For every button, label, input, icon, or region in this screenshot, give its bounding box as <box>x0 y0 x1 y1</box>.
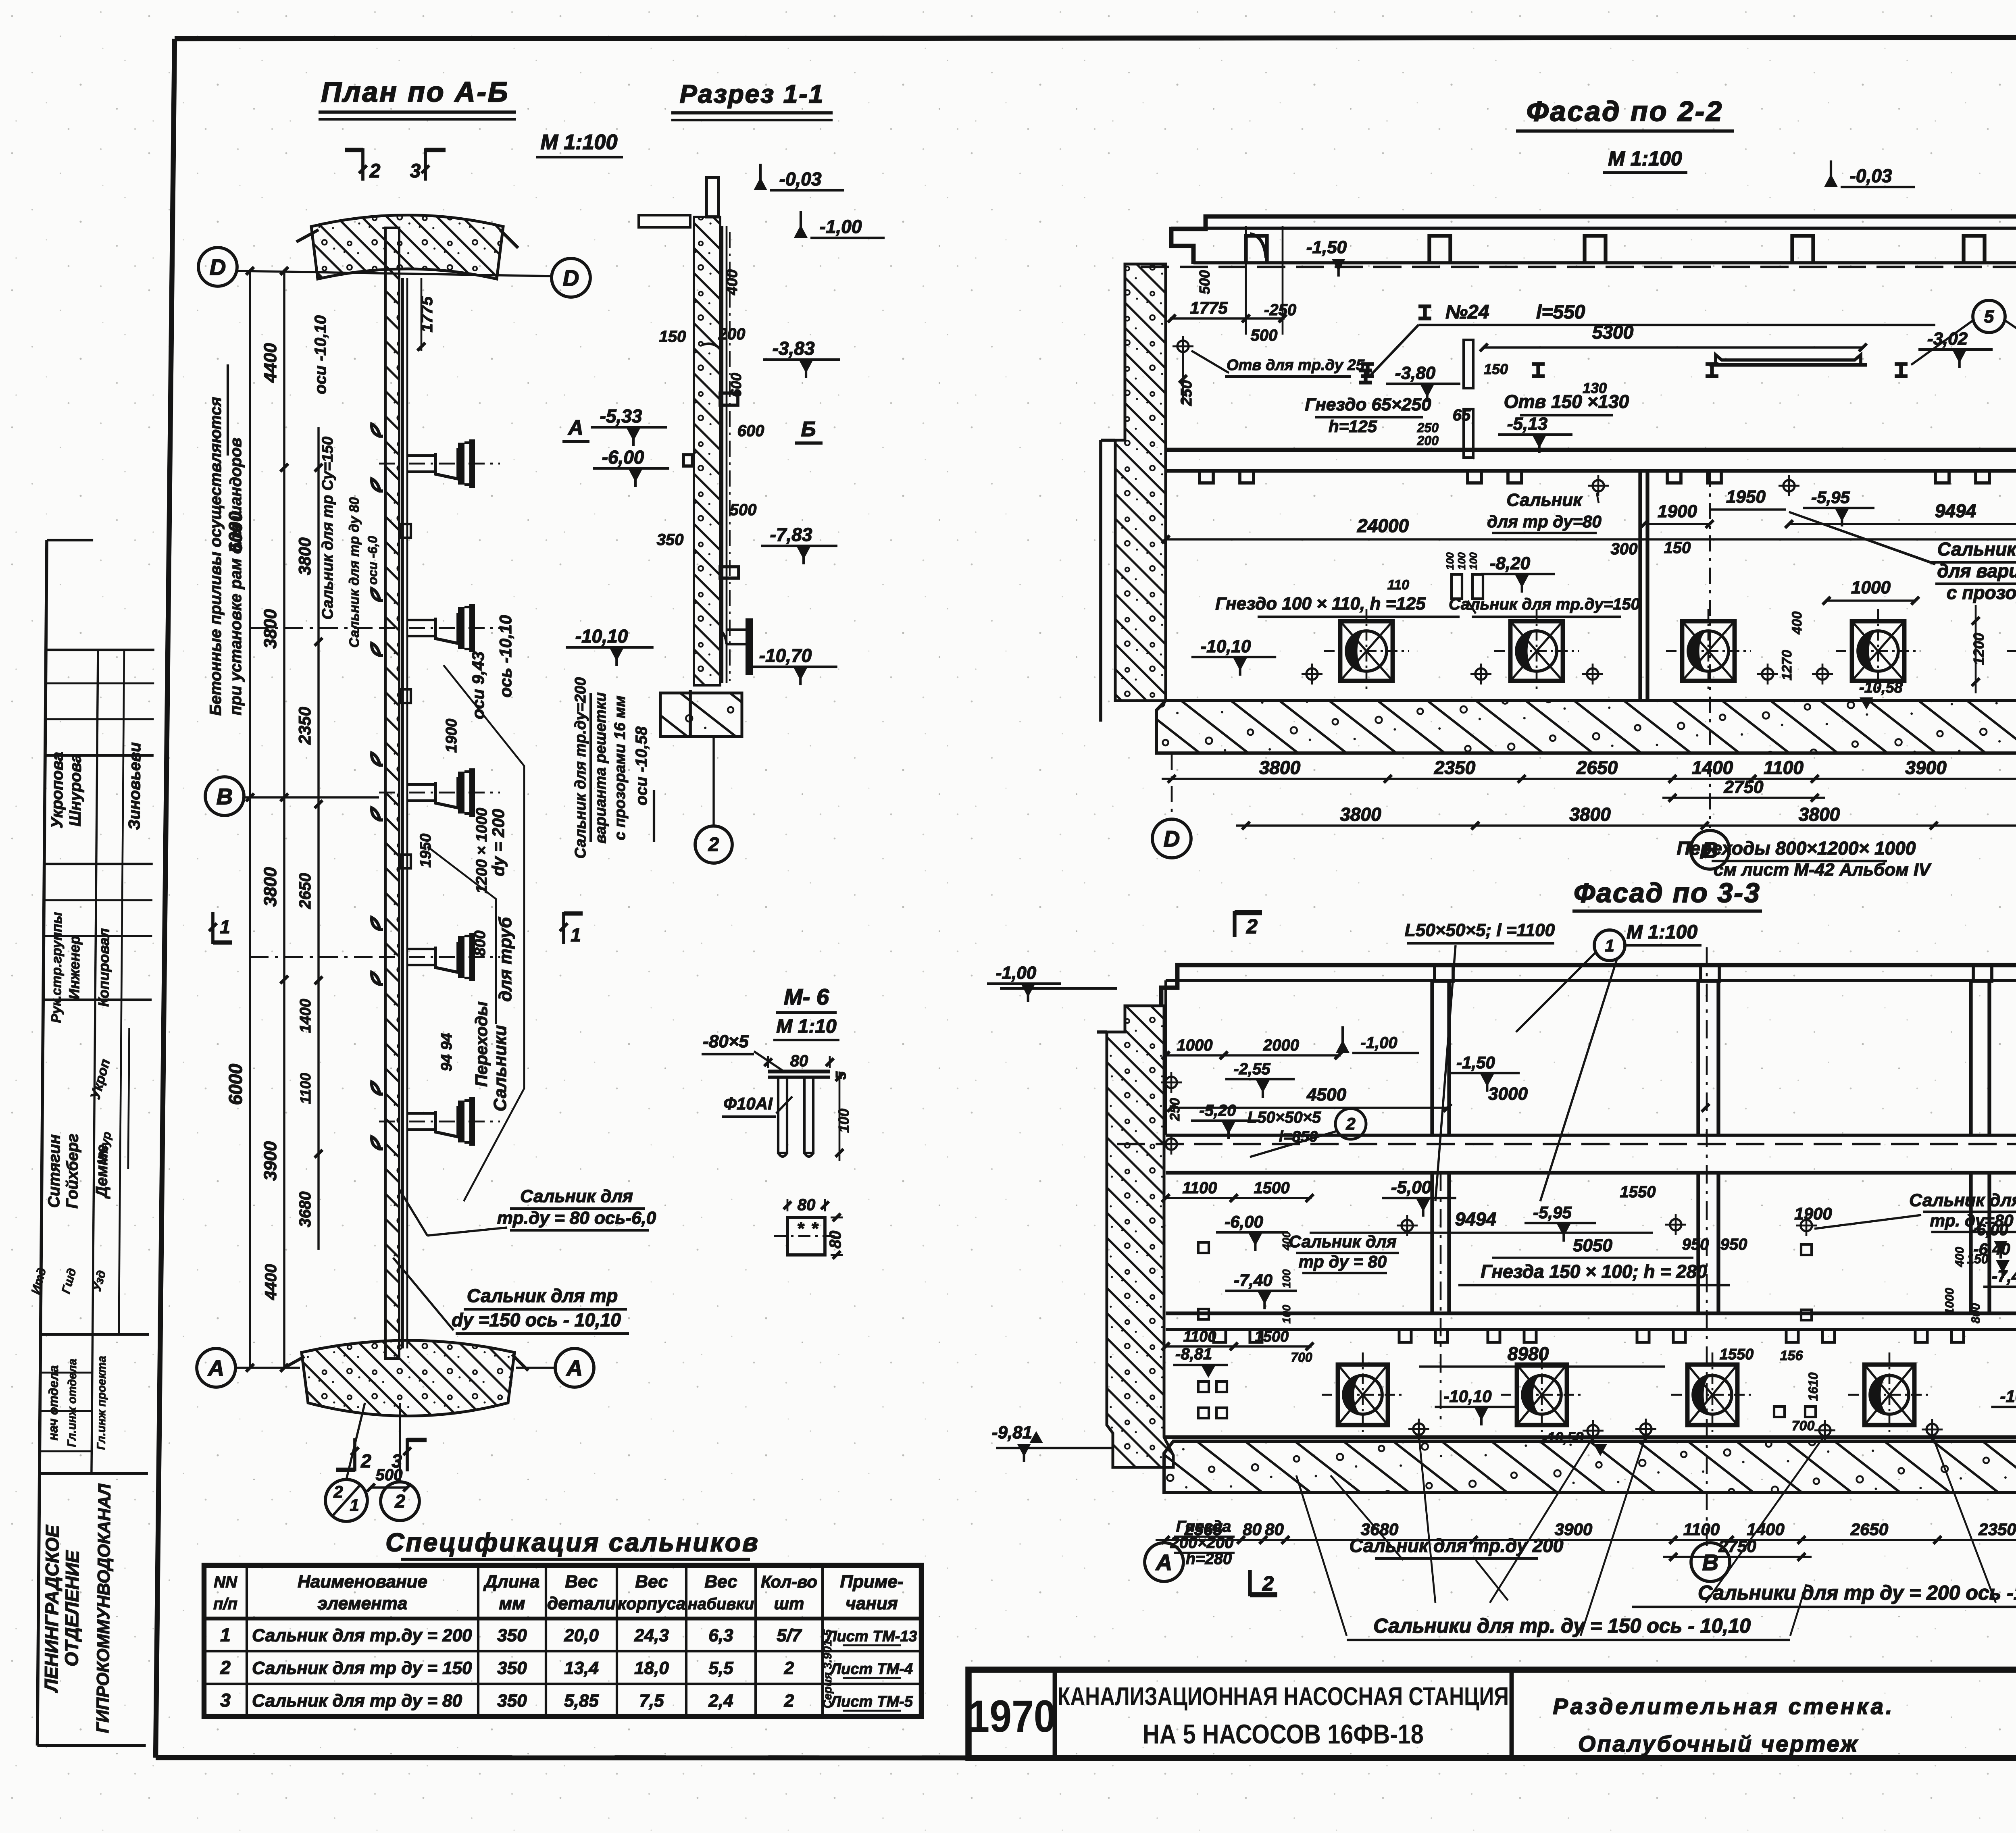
svg-text:18,0: 18,0 <box>634 1658 669 1678</box>
svg-text:-10,10: -10,10 <box>1443 1387 1491 1406</box>
svg-text:-5,95: -5,95 <box>1533 1203 1572 1222</box>
svg-text:-7,40: -7,40 <box>1234 1271 1272 1290</box>
svg-text:2750: 2750 <box>1724 777 1764 797</box>
svg-text:-10,10: -10,10 <box>1201 637 1251 656</box>
svg-text:5/7: 5/7 <box>777 1626 802 1646</box>
svg-text:Гл.инж проекта: Гл.инж проекта <box>95 1356 108 1450</box>
svg-text:350: 350 <box>657 531 684 549</box>
svg-text:с прозорами 16 мм: с прозорами 16 мм <box>1947 582 2016 603</box>
svg-text:2: 2 <box>784 1691 794 1711</box>
svg-text:Наименование: Наименование <box>298 1572 427 1592</box>
svg-text:156: 156 <box>1780 1348 1804 1363</box>
svg-text:1: 1 <box>220 1625 231 1646</box>
svg-text:1: 1 <box>1605 936 1614 955</box>
svg-text:24,3: 24,3 <box>634 1626 669 1646</box>
svg-text:Вес: Вес <box>565 1572 598 1592</box>
svg-text:1970: 1970 <box>967 1692 1056 1741</box>
svg-text:набивки: набивки <box>688 1595 754 1613</box>
svg-text:110: 110 <box>1387 577 1409 593</box>
svg-text:А: А <box>567 416 583 439</box>
svg-text:1100: 1100 <box>1764 757 1804 778</box>
svg-text:2: 2 <box>220 1657 231 1678</box>
svg-text:-0,03: -0,03 <box>1850 165 1892 186</box>
svg-text:D: D <box>563 265 579 291</box>
svg-text:-5,95: -5,95 <box>1811 488 1850 507</box>
svg-text:9494: 9494 <box>1935 500 1976 521</box>
svg-text:Гойхберг: Гойхберг <box>63 1134 81 1209</box>
svg-text:400: 400 <box>724 269 741 295</box>
svg-text:п/п: п/п <box>213 1595 237 1613</box>
svg-text:Сальник для: Сальник для <box>520 1186 633 1206</box>
svg-text:Гл.инж отдела: Гл.инж отдела <box>65 1359 79 1447</box>
svg-text:Гнезда 150 × 100; h = 280: Гнезда 150 × 100; h = 280 <box>1481 1261 1707 1282</box>
svg-text:400: 400 <box>1953 1247 1966 1267</box>
svg-text:3800: 3800 <box>1259 757 1301 778</box>
svg-text:2350: 2350 <box>1978 1520 2016 1539</box>
svg-text:КАНАЛИЗАЦИОННАЯ НАСОСНАЯ СТА: КАНАЛИЗАЦИОННАЯ НАСОСНАЯ СТАНЦИЯ <box>1058 1683 1509 1711</box>
svg-text:Сальник для тр ду 80: Сальник для тр ду 80 <box>347 497 362 647</box>
svg-text:-10,58: -10,58 <box>1542 1429 1583 1446</box>
svg-text:80: 80 <box>1243 1520 1262 1539</box>
svg-text:-1,00: -1,00 <box>996 963 1037 983</box>
svg-text:Опалубочный чертеж: Опалубочный чертеж <box>1578 1731 1859 1756</box>
svg-text:-10,58: -10,58 <box>1859 679 1903 696</box>
svg-text:80: 80 <box>1265 1520 1284 1539</box>
svg-text:Фасад по 2-2: Фасад по 2-2 <box>1527 96 1723 127</box>
svg-text:-250: -250 <box>1264 301 1296 319</box>
svg-text:Зиновьеви: Зиновьеви <box>125 742 144 830</box>
svg-text:A: A <box>207 1355 224 1381</box>
svg-text:600: 600 <box>728 373 744 397</box>
svg-text:1200 × 1000: 1200 × 1000 <box>473 808 490 893</box>
svg-text:1950: 1950 <box>1726 487 1766 507</box>
svg-text:Разделительная стенка.: Разделительная стенка. <box>1553 1694 1894 1719</box>
svg-text:2: 2 <box>1262 1572 1274 1595</box>
svg-text:Гнездо 65×250: Гнездо 65×250 <box>1305 395 1431 414</box>
svg-text:-2,55: -2,55 <box>1233 1060 1270 1078</box>
svg-text:350: 350 <box>497 1626 527 1646</box>
svg-text:№24: №24 <box>1445 302 1489 323</box>
svg-text:3680: 3680 <box>296 1192 314 1228</box>
svg-text:NN: NN <box>214 1573 237 1591</box>
svg-text:Отв для тр.ду 25: Отв для тр.ду 25 <box>1227 357 1365 374</box>
svg-text:Сальник для тр: Сальник для тр <box>467 1285 618 1306</box>
svg-text:элемента: элемента <box>318 1594 408 1613</box>
svg-text:A: A <box>566 1355 583 1381</box>
svg-text:-6,00: -6,00 <box>1971 1221 2008 1239</box>
svg-text:100: 100 <box>1456 552 1468 570</box>
svg-text:5,85: 5,85 <box>564 1691 599 1711</box>
svg-text:700: 700 <box>1792 1418 1815 1434</box>
svg-text:7,5: 7,5 <box>639 1691 664 1711</box>
svg-text:3: 3 <box>410 160 421 182</box>
svg-text:НА 5 НАСОСОВ 16ФВ-18: НА 5 НАСОСОВ 16ФВ-18 <box>1143 1719 1424 1750</box>
svg-text:2650: 2650 <box>1576 757 1618 778</box>
svg-text:500: 500 <box>1251 327 1278 344</box>
svg-text:D: D <box>1164 826 1180 851</box>
svg-text:-5,33: -5,33 <box>600 406 642 427</box>
svg-text:1900: 1900 <box>443 719 460 753</box>
svg-text:1: 1 <box>571 924 581 945</box>
svg-text:Сальник для тр.ду 200: Сальник для тр.ду 200 <box>1350 1535 1564 1556</box>
svg-text:1400: 1400 <box>297 999 314 1033</box>
svg-text:dy = 200: dy = 200 <box>489 809 508 876</box>
svg-text:2: 2 <box>1345 1114 1355 1133</box>
svg-text:-9,81: -9,81 <box>992 1423 1032 1442</box>
svg-text:Сальник для тр.ду = 200: Сальник для тр.ду = 200 <box>252 1626 472 1646</box>
svg-text:Лист ТМ-13: Лист ТМ-13 <box>825 1628 917 1645</box>
svg-text:Сальник для тр ду = 80: Сальник для тр ду = 80 <box>252 1691 462 1711</box>
svg-text:-8,20: -8,20 <box>1490 553 1531 573</box>
svg-text:Серия 3.901-5: Серия 3.901-5 <box>821 1629 834 1708</box>
svg-text:Сальники для тр ду =: Сальники для тр ду = 200 ось -10,10 <box>1698 1581 2016 1604</box>
svg-text:нач отдела: нач отдела <box>46 1365 61 1441</box>
svg-text:3800: 3800 <box>260 867 280 907</box>
svg-text:М 1:100: М 1:100 <box>1627 922 1697 943</box>
svg-text:-3,83: -3,83 <box>773 338 815 359</box>
svg-text:3900: 3900 <box>260 1141 280 1181</box>
svg-text:при установке рам для шанд: при установке рам для шандоров <box>227 438 245 716</box>
svg-text:3000: 3000 <box>1488 1084 1528 1104</box>
svg-text:1000: 1000 <box>1177 1036 1213 1054</box>
svg-text:-80×5: -80×5 <box>703 1032 749 1051</box>
svg-text:Рук.стр.группы: Рук.стр.группы <box>49 912 65 1023</box>
svg-text:2: 2 <box>369 160 381 182</box>
svg-text:100: 100 <box>1280 1305 1293 1323</box>
svg-text:детали: детали <box>547 1594 616 1613</box>
svg-text:2: 2 <box>360 1450 371 1471</box>
svg-text:Приме-: Приме- <box>840 1572 903 1592</box>
svg-text:Сальник для тр ду = 200: Сальник для тр ду = 200 <box>1937 539 2016 560</box>
svg-text:Вес: Вес <box>635 1572 668 1592</box>
svg-text:Б: Б <box>801 418 816 441</box>
svg-text:130: 130 <box>1583 380 1607 396</box>
svg-text:8980: 8980 <box>1508 1343 1549 1364</box>
svg-text:ось -10,10: ось -10,10 <box>496 615 515 698</box>
svg-text:3900: 3900 <box>1905 757 1947 778</box>
svg-text:3: 3 <box>220 1690 231 1711</box>
svg-text:Вес: Вес <box>704 1572 737 1592</box>
svg-text:D: D <box>210 254 226 280</box>
svg-text:Ф10АI: Ф10АI <box>723 1094 773 1113</box>
svg-text:dy =150 ось - 10,10: dy =150 ось - 10,10 <box>452 1309 621 1330</box>
svg-text:Бетонные приливы осуществляю: Бетонные приливы осуществляются <box>207 397 225 716</box>
svg-text:350: 350 <box>497 1658 527 1678</box>
svg-text:М 1:100: М 1:100 <box>1608 147 1682 170</box>
svg-text:80: 80 <box>827 1231 844 1249</box>
svg-text:94 94: 94 94 <box>438 1033 455 1071</box>
svg-text:1550: 1550 <box>1720 1346 1754 1363</box>
svg-text:-5,00: -5,00 <box>1391 1178 1432 1197</box>
svg-text:B: B <box>217 784 233 809</box>
svg-text:2650: 2650 <box>296 873 314 909</box>
svg-text:корпуса: корпуса <box>618 1594 685 1613</box>
svg-text:80: 80 <box>798 1196 816 1214</box>
svg-text:2000: 2000 <box>1263 1036 1299 1054</box>
svg-text:150: 150 <box>1967 1252 1989 1266</box>
svg-text:мм: мм <box>499 1594 525 1613</box>
svg-text:4500: 4500 <box>1306 1085 1346 1105</box>
svg-text:-6,00: -6,00 <box>602 447 644 468</box>
svg-text:Отв 150 ×130: Отв 150 ×130 <box>1504 391 1629 412</box>
svg-text:600: 600 <box>737 422 764 440</box>
svg-text:2350: 2350 <box>295 707 314 745</box>
svg-text:Разрез 1-1: Разрез 1-1 <box>680 79 825 108</box>
svg-text:Гнездо 100 × 110, h =125: Гнездо 100 × 110, h =125 <box>1215 594 1426 614</box>
svg-text:13,4: 13,4 <box>564 1658 599 1678</box>
svg-text:-0,03: -0,03 <box>779 169 822 189</box>
svg-text:2: 2 <box>708 834 719 855</box>
svg-text:3800: 3800 <box>1569 804 1611 825</box>
svg-text:1400: 1400 <box>1692 757 1733 778</box>
svg-text:Лист ТМ-4: Лист ТМ-4 <box>829 1661 913 1678</box>
svg-text:для труб: для труб <box>496 916 515 1002</box>
svg-text:500: 500 <box>730 501 757 519</box>
svg-text:Спецификация сальников: Спецификация сальников <box>385 1528 760 1557</box>
svg-text:400: 400 <box>1789 612 1805 635</box>
svg-text:-1,00: -1,00 <box>820 216 862 237</box>
svg-text:1610: 1610 <box>1806 1372 1820 1401</box>
svg-text:1100: 1100 <box>1683 1520 1720 1539</box>
svg-text:1500: 1500 <box>1255 1328 1289 1345</box>
svg-text:100: 100 <box>835 1109 852 1133</box>
svg-text:-8,81: -8,81 <box>1175 1345 1212 1363</box>
svg-text:Сальники для тр. ду = 150: Сальники для тр. ду = 150 ось - 10,10 <box>1373 1615 1751 1637</box>
svg-text:Переходы: Переходы <box>472 1001 491 1087</box>
svg-text:2: 2 <box>1246 915 1258 938</box>
svg-text:3800: 3800 <box>1799 804 1840 825</box>
svg-text:1775: 1775 <box>1190 298 1228 317</box>
svg-text:2,4: 2,4 <box>708 1691 733 1711</box>
svg-text:1100: 1100 <box>297 1073 314 1104</box>
svg-text:1100: 1100 <box>1183 1328 1216 1345</box>
svg-text:1000: 1000 <box>1943 1288 1956 1315</box>
svg-text:ГИПРОКОММУНВОДОКАНАЛ: ГИПРОКОММУНВОДОКАНАЛ <box>93 1483 115 1733</box>
svg-text:для тр ду=80: для тр ду=80 <box>1487 512 1602 531</box>
svg-text:250: 250 <box>1167 1098 1183 1121</box>
svg-text:1000: 1000 <box>1851 578 1891 597</box>
svg-text:3800: 3800 <box>295 537 314 575</box>
svg-text:3800: 3800 <box>1340 804 1381 825</box>
svg-text:М 1:100: М 1:100 <box>541 131 618 154</box>
svg-text:B: B <box>1702 1550 1718 1575</box>
svg-text:350: 350 <box>497 1691 527 1711</box>
svg-text:2: 2 <box>784 1658 794 1678</box>
svg-text:чания: чания <box>846 1594 898 1613</box>
svg-text:1270: 1270 <box>1779 650 1795 680</box>
svg-text:800: 800 <box>472 930 489 956</box>
svg-text:250: 250 <box>1178 380 1195 406</box>
svg-text:5300: 5300 <box>1592 322 1634 343</box>
svg-text:L50×50×5: L50×50×5 <box>1248 1109 1321 1126</box>
svg-text:оси -10,58: оси -10,58 <box>633 726 650 805</box>
svg-text:-10,10: -10,10 <box>2000 1387 2016 1406</box>
svg-text:24000: 24000 <box>1357 515 1409 536</box>
svg-text:150: 150 <box>1664 539 1691 557</box>
svg-text:100: 100 <box>1444 552 1456 570</box>
svg-text:250: 250 <box>1417 420 1439 435</box>
svg-text:варианта решетки: варианта решетки <box>592 692 609 843</box>
svg-text:5050: 5050 <box>1573 1236 1612 1255</box>
svg-text:1: 1 <box>350 1496 359 1515</box>
svg-text:шт: шт <box>774 1594 804 1613</box>
svg-text:2: 2 <box>394 1491 405 1512</box>
svg-text:ЛЕНИНГРАДСКОЕ: ЛЕНИНГРАДСКОЕ <box>41 1525 63 1693</box>
svg-text:-5,20: -5,20 <box>1199 1102 1236 1119</box>
svg-text:тр ду = 80: тр ду = 80 <box>1299 1252 1387 1271</box>
svg-text:500: 500 <box>1196 270 1213 294</box>
svg-text:-7,40: -7,40 <box>1992 1267 2016 1286</box>
svg-text:5,5: 5,5 <box>708 1658 733 1678</box>
svg-text:ОТДЕЛЕНИЕ: ОТДЕЛЕНИЕ <box>61 1550 83 1667</box>
svg-text:-10,10: -10,10 <box>575 626 628 647</box>
svg-text:950: 950 <box>1682 1236 1709 1253</box>
svg-text:Копировал: Копировал <box>95 928 112 1007</box>
svg-text:Кол-во: Кол-во <box>761 1572 817 1591</box>
svg-text:Сальник: Сальник <box>1506 490 1583 510</box>
svg-text:-5,13: -5,13 <box>1507 414 1547 434</box>
svg-text:1500: 1500 <box>1254 1179 1290 1197</box>
svg-text:с прозорами 16 мм: с прозорами 16 мм <box>612 696 629 841</box>
svg-text:тр.ду = 80 ось-6,0: тр.ду = 80 ось-6,0 <box>497 1208 656 1228</box>
svg-text:1100: 1100 <box>1182 1179 1217 1197</box>
svg-text:5: 5 <box>1984 307 1994 327</box>
svg-text:200: 200 <box>718 325 746 343</box>
svg-text:Инженер: Инженер <box>66 936 83 999</box>
svg-text:6000: 6000 <box>225 1063 246 1105</box>
svg-text:300: 300 <box>1611 540 1638 558</box>
svg-text:2: 2 <box>333 1482 343 1501</box>
svg-text:-1,00: -1,00 <box>1360 1034 1397 1052</box>
svg-text:Шнурова: Шнурова <box>66 754 84 826</box>
svg-text:Переходы 800×1200× 1000: Переходы 800×1200× 1000 <box>1677 838 1916 859</box>
svg-text:Сальник для тр ду = 150: Сальник для тр ду = 150 <box>252 1658 472 1678</box>
svg-text:400: 400 <box>1280 1231 1293 1250</box>
svg-text:4400: 4400 <box>262 1264 280 1300</box>
svg-text:-7,83: -7,83 <box>770 524 812 545</box>
svg-text:950: 950 <box>1720 1236 1747 1253</box>
svg-text:1900: 1900 <box>1658 501 1697 521</box>
svg-text:План по А-Б: План по А-Б <box>321 76 510 108</box>
svg-text:Длина: Длина <box>483 1572 539 1592</box>
svg-text:100: 100 <box>1467 552 1479 570</box>
svg-text:см лист М-42 Альбом IV: см лист М-42 Альбом IV <box>1714 860 1932 880</box>
svg-text:М 1:10: М 1:10 <box>776 1016 837 1037</box>
svg-text:150: 150 <box>1484 361 1508 377</box>
svg-text:-3,80: -3,80 <box>1395 363 1436 383</box>
svg-text:Фасад по 3-3: Фасад по 3-3 <box>1574 878 1761 908</box>
svg-text:Укропова: Укропова <box>48 752 66 828</box>
svg-text:-1,50: -1,50 <box>1456 1053 1495 1072</box>
svg-text:М- 6: М- 6 <box>784 984 829 1009</box>
svg-text:оси -6,0: оси -6,0 <box>365 536 380 585</box>
svg-text:L50×50×5; l =1100: L50×50×5; l =1100 <box>1405 920 1555 940</box>
svg-text:2350: 2350 <box>1434 757 1476 778</box>
svg-text:9494: 9494 <box>1455 1209 1496 1230</box>
svg-text:-6,00: -6,00 <box>1225 1212 1263 1231</box>
svg-text:Сальники: Сальники <box>490 1025 510 1111</box>
svg-text:Сальник для тр.ду=150: Сальник для тр.ду=150 <box>1449 595 1640 613</box>
svg-text:h=125: h=125 <box>1329 417 1377 436</box>
svg-text:150: 150 <box>659 328 686 345</box>
svg-text:200: 200 <box>1417 433 1439 448</box>
svg-text:80: 80 <box>790 1052 808 1070</box>
svg-text:800: 800 <box>1969 1303 1983 1323</box>
svg-text:Лист ТМ-5: Лист ТМ-5 <box>829 1694 913 1710</box>
svg-text:1550: 1550 <box>1620 1183 1656 1201</box>
svg-text:Сальник для тр.ду=200: Сальник для тр.ду=200 <box>572 677 589 859</box>
svg-text:Сальник для: Сальник для <box>1909 1190 2016 1210</box>
svg-text:1: 1 <box>220 916 230 937</box>
svg-text:4400: 4400 <box>260 343 280 383</box>
svg-text:1900: 1900 <box>1794 1204 1832 1223</box>
svg-text:-1,50: -1,50 <box>1306 237 1347 257</box>
svg-text:1200: 1200 <box>1970 633 1987 665</box>
svg-text:A: A <box>1155 1550 1172 1575</box>
svg-text:2650: 2650 <box>1850 1520 1888 1539</box>
svg-text:20,0: 20,0 <box>564 1626 599 1646</box>
svg-text:Ситягин: Ситягин <box>45 1134 63 1208</box>
svg-text:Сальник для: Сальник для <box>1289 1232 1396 1251</box>
svg-text:-10,70: -10,70 <box>759 645 812 666</box>
svg-text:6,3: 6,3 <box>708 1626 733 1646</box>
svg-text:-3,02: -3,02 <box>1927 329 1968 349</box>
svg-text:оси -10,10: оси -10,10 <box>312 315 329 394</box>
svg-text:100: 100 <box>1280 1269 1293 1288</box>
svg-text:Сальник для тр Су=150: Сальник для тр Су=150 <box>319 437 336 620</box>
svg-text:Гнезда: Гнезда <box>1176 1518 1231 1535</box>
svg-text:700: 700 <box>1291 1350 1312 1365</box>
svg-text:l=550: l=550 <box>1536 302 1585 323</box>
